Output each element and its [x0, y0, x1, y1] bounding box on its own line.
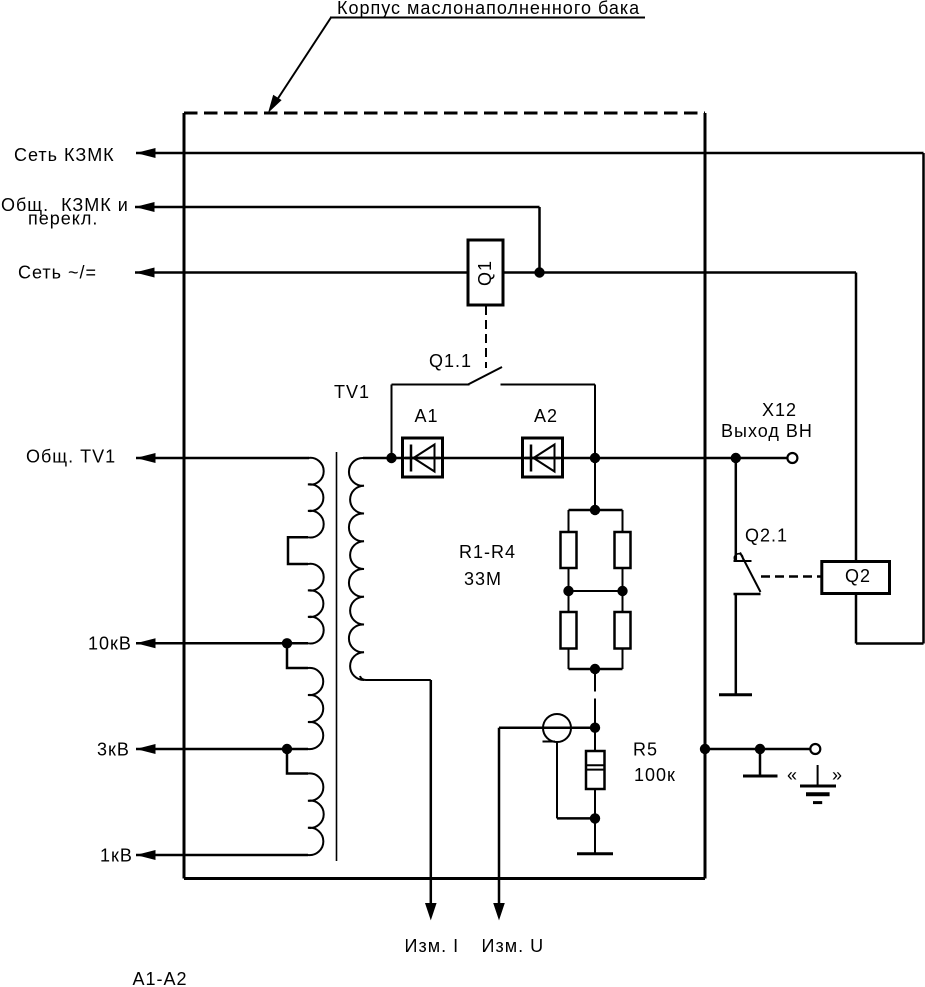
- svg-text:A1: A1: [415, 406, 439, 426]
- svg-text:R1-R4: R1-R4: [459, 542, 516, 562]
- svg-text:1кВ: 1кВ: [100, 846, 133, 866]
- svg-text:33М: 33М: [464, 569, 502, 589]
- svg-text:А1-А2: А1-А2: [133, 969, 188, 987]
- svg-text:TV1: TV1: [334, 382, 370, 402]
- svg-text:»: »: [832, 765, 843, 785]
- svg-text:Общ. TV1: Общ. TV1: [26, 447, 116, 467]
- svg-text:Q1.1: Q1.1: [429, 351, 472, 371]
- svg-text:«: «: [787, 765, 798, 785]
- svg-text:Корпус маслонаполненного бака: Корпус маслонаполненного бака: [337, 0, 640, 18]
- svg-text:100к: 100к: [634, 765, 676, 785]
- svg-text:Q2: Q2: [845, 566, 871, 586]
- svg-text:R5: R5: [633, 740, 658, 760]
- svg-text:Сеть КЗМК: Сеть КЗМК: [14, 145, 115, 165]
- svg-text:X12: X12: [762, 400, 797, 420]
- svg-text:Q1: Q1: [475, 260, 495, 286]
- svg-text:3кВ: 3кВ: [97, 740, 130, 760]
- svg-text:A2: A2: [534, 406, 558, 426]
- svg-text:Q2.1: Q2.1: [745, 526, 788, 546]
- svg-text:Выход ВН: Выход ВН: [721, 421, 813, 441]
- svg-text:перекл.: перекл.: [28, 209, 98, 229]
- svg-text:Сеть ~/=: Сеть ~/=: [18, 263, 97, 283]
- svg-text:Изм. U: Изм. U: [482, 936, 545, 956]
- svg-text:Изм. I: Изм. I: [405, 936, 460, 956]
- svg-text:10кВ: 10кВ: [88, 634, 132, 654]
